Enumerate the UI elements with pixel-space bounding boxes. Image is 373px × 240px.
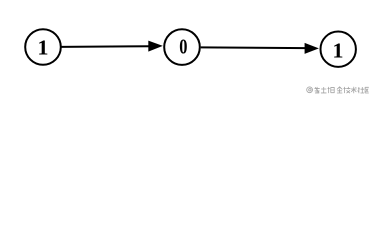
wire: edge from node B to node C bbox=[201, 46, 306, 49]
node A (state 1, left circle) bbox=[25, 29, 61, 65]
svg-text:0: 0 bbox=[179, 36, 187, 59]
node C (state 1, right circle) bbox=[321, 32, 356, 67]
char 区 bbox=[365, 87, 369, 93]
watermark "@稀土掘金技术社区" drawn as faint glyph shapes bbox=[307, 87, 369, 93]
char 金 bbox=[337, 87, 342, 93]
arrowhead into node C bbox=[305, 43, 319, 54]
@ sign bbox=[307, 87, 313, 93]
char 掘 bbox=[328, 87, 335, 93]
char 稀 bbox=[315, 87, 320, 93]
svg-text:1: 1 bbox=[332, 39, 343, 62]
node B (state 0, middle circle) bbox=[164, 29, 200, 65]
arrowhead into node B bbox=[148, 41, 163, 52]
char 术 bbox=[351, 87, 357, 93]
wire: edge from node A to node B bbox=[62, 45, 151, 48]
char 技 bbox=[344, 87, 351, 93]
char 土 bbox=[321, 87, 327, 93]
svg-text:1: 1 bbox=[37, 36, 48, 59]
char 社 bbox=[358, 87, 365, 93]
